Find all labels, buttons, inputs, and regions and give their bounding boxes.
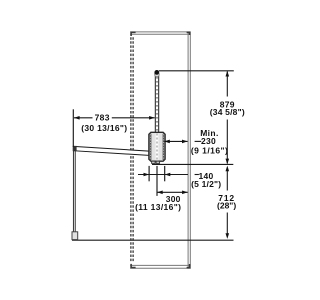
svg-text:(28"): (28"): [217, 201, 236, 211]
svg-text:(11 13/16"): (11 13/16"): [135, 202, 181, 212]
svg-text:(5 1/2"): (5 1/2"): [191, 179, 221, 189]
svg-text:(30 13/16"): (30 13/16"): [81, 123, 127, 133]
svg-text:(9 1/16"): (9 1/16"): [191, 146, 228, 156]
svg-text:230: 230: [201, 136, 216, 146]
svg-text:(34 5/8"): (34 5/8"): [210, 107, 245, 117]
svg-text:783: 783: [95, 113, 110, 123]
